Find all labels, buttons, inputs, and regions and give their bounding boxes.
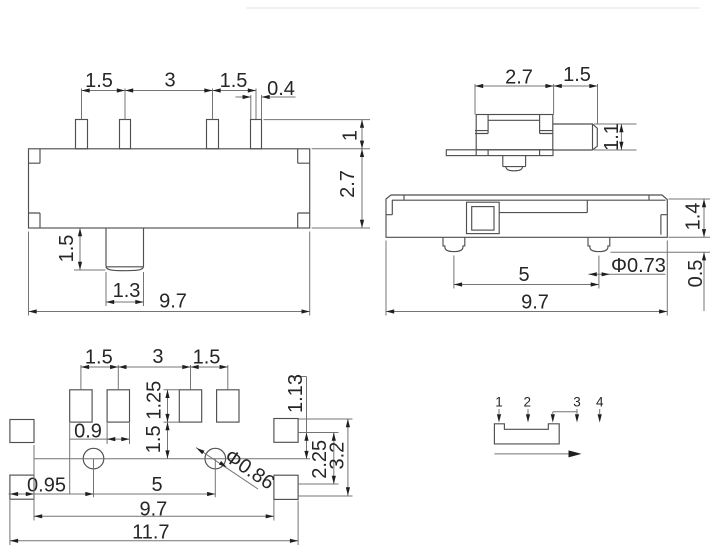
- side view rail line: [499, 201, 587, 213]
- svg-text:1.5: 1.5: [563, 64, 591, 86]
- end view body outline: [476, 115, 553, 150]
- front view corner notch bottom-left: [29, 213, 41, 228]
- dim 0.86 arrowheads: [195, 446, 204, 454]
- svg-text:0.5: 0.5: [685, 260, 707, 288]
- side view left step: [386, 200, 392, 215]
- svg-text:2.7: 2.7: [505, 67, 533, 89]
- dim 2.25 line: [333, 433, 335, 485]
- dim 0.86 leader line: [196, 448, 258, 490]
- dim 9.7 line (front): [29, 311, 310, 313]
- dim 9.7 arrowheads (front): [29, 309, 37, 313]
- dim 1.25/1.5 line: [167, 390, 169, 459]
- side view inner top line: [392, 199, 666, 201]
- side view body outline: [386, 195, 667, 237]
- pin 1 (front view): [76, 120, 88, 149]
- svg-text:5: 5: [518, 264, 529, 286]
- dim 1.13 tick: [293, 376, 307, 378]
- pin 4 arrow: [599, 409, 601, 414]
- footprint right upper pad: [274, 419, 298, 443]
- dim 1.1 extension lines: [594, 124, 637, 150]
- right lower pad extension line: [298, 483, 338, 485]
- dim 0.4 leader lines: [236, 96, 296, 98]
- dim 9.7 arrowheads (footprint): [34, 514, 42, 518]
- footprint hole 1: [83, 448, 104, 469]
- dim 0.4 extension lines: [251, 95, 262, 119]
- dim 3.2 extension lines: [298, 419, 352, 496]
- svg-text:1: 1: [340, 130, 362, 141]
- side view top ticks: [404, 195, 649, 200]
- dim 1.5 line (knob depth): [79, 228, 81, 270]
- footprint centerline: [34, 458, 310, 460]
- dim 1.13 arrowheads: [304, 433, 308, 441]
- footprint pad 4: [217, 390, 239, 422]
- dim 1.3 arrowheads: [106, 300, 114, 304]
- extension line pin1 center: [81, 89, 83, 120]
- svg-text:2.7: 2.7: [337, 170, 359, 198]
- end view dim arrowheads: [475, 84, 483, 88]
- front view body outline: [29, 149, 310, 228]
- dim 0.5 arrowhead: [702, 252, 706, 260]
- dim 0.5 line: [703, 252, 705, 311]
- dim 5 arrowheads (footprint): [85, 492, 93, 496]
- dim 1.4 extension lines: [669, 199, 711, 237]
- svg-text:1.5: 1.5: [56, 235, 78, 263]
- footprint left lower pad: [10, 475, 34, 499]
- footprint pitch arrowheads: [81, 365, 89, 369]
- footprint right lower pad: [274, 475, 298, 499]
- svg-text:0.95: 0.95: [27, 475, 66, 497]
- footprint left upper pad: [10, 420, 34, 443]
- dim 9.7 extension lines (side): [386, 241, 667, 316]
- dim 11.7 line: [10, 540, 298, 542]
- svg-text:9.7: 9.7: [139, 499, 167, 521]
- svg-text:1.1: 1.1: [601, 123, 623, 151]
- front view corner notch bottom-right: [298, 213, 310, 228]
- dim 1.25/1.5 extension lines: [164, 390, 180, 422]
- footprint pitch dim line: [81, 366, 228, 368]
- pin 1 arrow: [498, 409, 500, 414]
- front view corner notch top-left: [29, 149, 41, 163]
- leg bottom extension line: [611, 251, 711, 253]
- pin 3 arrow: [576, 409, 578, 414]
- end view extension lines: [475, 84, 598, 124]
- footprint hole 2: [205, 448, 226, 469]
- svg-text:1.5: 1.5: [85, 70, 113, 92]
- svg-text:2: 2: [524, 395, 532, 410]
- dim 1.4 arrowheads: [702, 199, 706, 207]
- svg-text:5: 5: [151, 474, 162, 496]
- dim 0.9 arrowheads: [107, 437, 115, 441]
- end view center recess: [488, 115, 539, 134]
- dim 5 line (side): [454, 284, 599, 286]
- dim 1.4 line: [703, 199, 705, 237]
- arrowheads pitch dims: [82, 88, 90, 92]
- footprint pad 2: [107, 390, 129, 422]
- extension line pin3 center: [212, 89, 214, 120]
- side view leg 2: [588, 237, 610, 251]
- footprint pitch extension lines: [81, 365, 228, 389]
- end view base plate: [446, 150, 553, 156]
- dim 1.3 extension lines: [106, 272, 144, 306]
- footprint pad 3: [179, 390, 201, 422]
- svg-text:1: 1: [495, 395, 503, 410]
- dim 11.7 extension lines: [10, 500, 298, 545]
- end view bottom nub: [503, 156, 526, 167]
- schematic tray outline: [494, 424, 559, 444]
- svg-text:Φ0.73: Φ0.73: [611, 255, 666, 277]
- svg-text:3: 3: [164, 70, 175, 92]
- svg-text:1.25: 1.25: [143, 381, 165, 420]
- svg-text:1.5: 1.5: [85, 347, 113, 369]
- svg-text:0.4: 0.4: [267, 78, 295, 100]
- extension line pin4 center: [255, 89, 257, 120]
- dim 0.4 arrowheads: [243, 95, 251, 99]
- pin 2 arrow: [527, 409, 529, 414]
- svg-text:1.4: 1.4: [683, 203, 705, 231]
- extension line pin2 center: [124, 89, 126, 120]
- front view corner notch top-right: [298, 149, 310, 163]
- dim 2.7 line (body height): [361, 149, 363, 228]
- svg-text:1.3: 1.3: [113, 280, 141, 302]
- side view slider inner square: [472, 207, 494, 231]
- dim 1.3 line: [106, 301, 144, 303]
- dim 11.7 arrowheads: [10, 539, 18, 543]
- dim 1.25/1.5 arrowheads: [165, 390, 169, 398]
- dim 0.9 line: [70, 438, 130, 440]
- side view right step: [661, 215, 667, 235]
- footprint pad 1: [70, 390, 92, 422]
- pin 3 (front view): [207, 120, 219, 149]
- dim 9.7 line (side): [386, 311, 667, 313]
- dim 5 arrowheads (side): [454, 282, 462, 286]
- pin 4 (front view): [251, 120, 262, 149]
- end view actuator knob: [553, 124, 597, 150]
- dim 2.7 extension line: [312, 227, 370, 229]
- svg-text:0.9: 0.9: [74, 421, 102, 443]
- svg-text:1.5: 1.5: [193, 347, 221, 369]
- dim 2.7 arrowheads: [360, 149, 364, 157]
- svg-text:4: 4: [596, 395, 604, 410]
- label 0.86 diameter: [220, 445, 278, 494]
- hole 1 stem line: [93, 459, 95, 498]
- dim 1.1 line: [620, 124, 622, 150]
- dim 9.7 arrowheads (side): [386, 309, 394, 313]
- side view leg 1: [443, 237, 465, 251]
- faint scan artifact line: [246, 7, 700, 9]
- dim 9.7 extension lines (footprint): [34, 445, 274, 521]
- dim 1 arrowheads: [360, 120, 364, 128]
- dim line pin pitch 1.5/3/1.5: [82, 90, 257, 92]
- dim 0.95 arrowheads: [10, 492, 18, 496]
- dim 2.25 arrowheads: [332, 433, 336, 441]
- dim 0.73 arrowheads: [589, 272, 597, 276]
- svg-text:9.7: 9.7: [521, 292, 549, 314]
- dim 1.1 arrowheads: [619, 124, 623, 132]
- dim 9.7 extension lines (front): [29, 232, 310, 316]
- slider knob (front view): [106, 228, 144, 267]
- travel direction arrow: [494, 453, 570, 455]
- side view slider outer square: [467, 202, 500, 233]
- dim 1.5 knob arrowheads: [78, 228, 82, 236]
- svg-text:11.7: 11.7: [132, 522, 169, 544]
- dim 5 extension lines (side): [454, 256, 599, 289]
- svg-text:9.7: 9.7: [159, 291, 187, 313]
- svg-text:3: 3: [152, 346, 163, 368]
- svg-text:1.5: 1.5: [220, 70, 248, 92]
- end view left clip lines: [475, 131, 488, 134]
- dim 1 extension lines (pin height): [264, 120, 371, 149]
- pin 2 (front view): [120, 120, 131, 149]
- right upper pad extension line: [298, 432, 338, 434]
- svg-text:1.13: 1.13: [285, 374, 307, 413]
- dim 0.9 extension lines: [70, 423, 130, 494]
- dim 1 line: [361, 120, 363, 149]
- dim 1.13 line: [306, 377, 308, 460]
- svg-text:3.2: 3.2: [326, 442, 348, 470]
- slider knob bottom arc: [106, 267, 144, 271]
- dim 3.2 line: [347, 419, 349, 496]
- dim 3.2 arrowheads: [346, 419, 350, 427]
- svg-text:3: 3: [573, 395, 581, 410]
- end view right clip lines: [540, 131, 553, 134]
- end view bottom nub arc: [506, 167, 523, 171]
- end view plate ticks: [476, 150, 539, 156]
- hole 2 stem line: [214, 459, 216, 498]
- svg-text:1.5: 1.5: [143, 425, 165, 453]
- dim 9.7 line (footprint): [34, 515, 274, 517]
- pin 3 jog leader: [553, 412, 577, 414]
- dim 0.95 and 5 line (footprint): [9, 493, 216, 495]
- dim 0.73 leader line: [589, 273, 666, 275]
- dim 1.5 knob extension line: [74, 269, 106, 271]
- dim line 2.7/1.5 (end view): [475, 85, 598, 87]
